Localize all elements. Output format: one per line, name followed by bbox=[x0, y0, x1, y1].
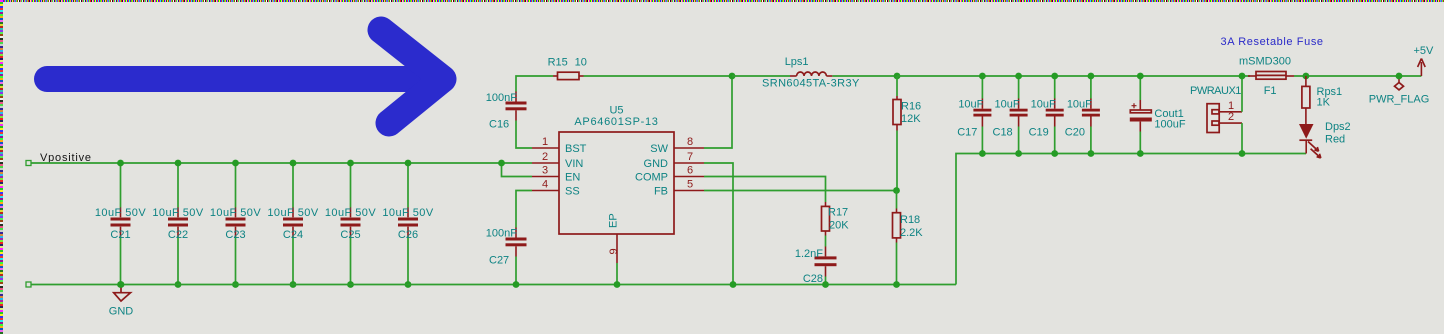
svg-text:FB: FB bbox=[654, 186, 668, 198]
svg-text:R15: R15 bbox=[548, 57, 568, 69]
pin 4 SS bbox=[532, 179, 580, 198]
svg-text:PWRAUX1: PWRAUX1 bbox=[1190, 85, 1241, 97]
svg-text:C24: C24 bbox=[283, 229, 303, 241]
svg-text:4: 4 bbox=[542, 179, 548, 191]
wire R15 right to SW node bbox=[579, 75, 584, 77]
capacitor C25 bbox=[325, 160, 377, 288]
svg-text:GND: GND bbox=[109, 306, 134, 318]
capacitor C23 bbox=[210, 160, 262, 288]
svg-text:8: 8 bbox=[687, 136, 693, 148]
junction SW node bbox=[729, 73, 736, 80]
svg-text:1: 1 bbox=[1228, 100, 1234, 112]
capacitor Cout1 polarized bbox=[1130, 73, 1186, 157]
svg-text:1: 1 bbox=[542, 136, 548, 148]
svg-text:C28: C28 bbox=[803, 273, 823, 285]
resistor R16 bbox=[893, 76, 921, 191]
svg-text:R17: R17 bbox=[828, 207, 848, 219]
svg-text:10uF 50V: 10uF 50V bbox=[267, 207, 319, 219]
capacitor C26 bbox=[382, 160, 434, 288]
capacitor C16 bbox=[486, 92, 527, 131]
svg-text:GND: GND bbox=[644, 158, 669, 170]
svg-text:C16: C16 bbox=[489, 119, 509, 131]
fuse F1 bbox=[1239, 56, 1294, 98]
svg-text:100nF: 100nF bbox=[486, 228, 517, 240]
svg-text:1.2nF: 1.2nF bbox=[795, 248, 823, 260]
svg-text:6: 6 bbox=[687, 165, 693, 177]
junction pin2 ground bbox=[1239, 150, 1246, 157]
svg-text:10uF 50V: 10uF 50V bbox=[95, 207, 147, 219]
svg-text:SW: SW bbox=[650, 143, 668, 155]
svg-text:10uF: 10uF bbox=[958, 98, 983, 110]
capacitor C18 bbox=[993, 73, 1028, 157]
net label Vpositive bbox=[26, 152, 92, 166]
svg-text:7: 7 bbox=[687, 151, 693, 163]
svg-text:100uF: 100uF bbox=[1154, 119, 1185, 131]
capacitor C28 bbox=[795, 248, 837, 288]
svg-text:R16: R16 bbox=[901, 101, 921, 113]
ground GND bbox=[109, 281, 134, 317]
pin 3 EN bbox=[532, 165, 580, 184]
svg-text:U5: U5 bbox=[609, 105, 623, 117]
svg-text:3A Resetable Fuse: 3A Resetable Fuse bbox=[1221, 36, 1324, 48]
svg-text:C27: C27 bbox=[489, 255, 509, 267]
wire PWRAUX pin2 drop bbox=[1241, 123, 1243, 153]
junction Rps1 top bbox=[1303, 73, 1310, 80]
wire top rail right section bbox=[897, 75, 1250, 77]
svg-text:R18: R18 bbox=[900, 214, 920, 226]
LED Dps2 bbox=[1299, 121, 1351, 158]
capacitor C17 bbox=[957, 73, 991, 157]
svg-text:Red: Red bbox=[1325, 133, 1345, 145]
pin 1 BST bbox=[532, 136, 587, 155]
resistor Rps1 bbox=[1302, 76, 1342, 124]
svg-text:SRN6045TA-3R3Y: SRN6045TA-3R3Y bbox=[762, 77, 860, 89]
svg-text:COMP: COMP bbox=[635, 172, 668, 184]
svg-text:SS: SS bbox=[565, 186, 580, 198]
svg-text:10uF 50V: 10uF 50V bbox=[325, 207, 377, 219]
pin 5 FB bbox=[654, 179, 704, 198]
svg-text:10uF 50V: 10uF 50V bbox=[152, 207, 204, 219]
wire FB node bbox=[704, 190, 896, 192]
resistor R15 bbox=[548, 57, 587, 80]
wire fuse to +5V bbox=[1294, 75, 1421, 77]
wire Vpositive rail bbox=[31, 162, 532, 164]
svg-text:VIN: VIN bbox=[565, 158, 583, 170]
svg-text:Lps1: Lps1 bbox=[785, 56, 809, 68]
svg-text:+5V: +5V bbox=[1413, 45, 1434, 57]
svg-text:PWR_FLAG: PWR_FLAG bbox=[1369, 94, 1430, 106]
svg-text:10uF: 10uF bbox=[1031, 98, 1056, 110]
svg-text:12K: 12K bbox=[901, 113, 921, 125]
svg-text:20K: 20K bbox=[829, 219, 849, 231]
wire BST riser and R15 left bbox=[516, 76, 553, 148]
svg-text:C23: C23 bbox=[225, 229, 245, 241]
pin 7 GND bbox=[644, 151, 704, 170]
wire SS to C27 bbox=[516, 191, 532, 228]
capacitor C20 bbox=[1065, 73, 1100, 157]
svg-text:EN: EN bbox=[565, 172, 580, 184]
junction PWRAUX rail bbox=[1239, 73, 1246, 80]
svg-text:C17: C17 bbox=[957, 127, 977, 139]
wire EN drop bbox=[502, 163, 533, 177]
svg-text:AP64601SP-13: AP64601SP-13 bbox=[574, 116, 658, 128]
junction GND rail bbox=[730, 281, 737, 288]
pin 8 SW bbox=[650, 136, 704, 155]
svg-text:100nF: 100nF bbox=[486, 92, 517, 104]
svg-text:10: 10 bbox=[575, 57, 587, 69]
junction VIN node bbox=[498, 160, 505, 167]
svg-text:9: 9 bbox=[608, 248, 620, 254]
svg-text:2.2K: 2.2K bbox=[900, 227, 923, 239]
junction inductor right node bbox=[894, 73, 901, 80]
svg-text:10uF: 10uF bbox=[1067, 98, 1092, 110]
junction EP ground bbox=[614, 281, 621, 288]
wire bottom ground rail bbox=[31, 284, 956, 286]
svg-text:C22: C22 bbox=[168, 229, 188, 241]
svg-text:5: 5 bbox=[687, 179, 693, 191]
svg-text:Dps2: Dps2 bbox=[1325, 121, 1351, 133]
svg-text:F1: F1 bbox=[1264, 85, 1277, 97]
power symbol +5V bbox=[1413, 45, 1434, 76]
wire COMP to R17 bbox=[704, 177, 826, 203]
svg-text:2: 2 bbox=[1228, 111, 1234, 123]
svg-text:10uF: 10uF bbox=[995, 98, 1020, 110]
capacitor C27 bbox=[486, 228, 527, 288]
svg-text:C26: C26 bbox=[398, 229, 418, 241]
svg-text:1K: 1K bbox=[1317, 97, 1331, 109]
svg-text:2: 2 bbox=[542, 151, 548, 163]
svg-text:EP: EP bbox=[608, 213, 620, 228]
graphic arrow bbox=[47, 30, 443, 123]
svg-text:C25: C25 bbox=[340, 229, 360, 241]
pin 9 EP bbox=[608, 213, 621, 263]
capacitor C21 bbox=[95, 160, 147, 288]
svg-text:C21: C21 bbox=[110, 229, 130, 241]
svg-text:3: 3 bbox=[542, 165, 548, 177]
svg-text:10uF 50V: 10uF 50V bbox=[382, 207, 434, 219]
pin 2 VIN bbox=[532, 151, 583, 170]
svg-text:C19: C19 bbox=[1029, 127, 1049, 139]
wire PWRAUX pin1 riser bbox=[1241, 76, 1243, 112]
power flag PWR_FLAG bbox=[1369, 73, 1430, 106]
svg-text:10uF 50V: 10uF 50V bbox=[210, 207, 262, 219]
svg-text:C20: C20 bbox=[1065, 127, 1085, 139]
connector PWRAUX1 bbox=[1190, 85, 1242, 133]
wire GND pin to ground rail bbox=[704, 163, 733, 285]
wire EP to ground rail bbox=[616, 263, 618, 285]
svg-text:C18: C18 bbox=[993, 127, 1013, 139]
wire SW drop bbox=[704, 76, 732, 148]
junction FB node bbox=[893, 187, 900, 194]
capacitor C19 bbox=[1029, 73, 1064, 157]
resistor R18 bbox=[893, 191, 924, 288]
wire SW node to inductor bbox=[732, 75, 790, 77]
inductor Lps1 bbox=[762, 56, 860, 89]
capacitor C24 bbox=[267, 160, 319, 288]
svg-text:mSMD300: mSMD300 bbox=[1239, 56, 1291, 68]
net square bottom left bbox=[26, 282, 31, 287]
svg-text:BST: BST bbox=[565, 143, 587, 155]
pin 6 COMP bbox=[635, 165, 704, 184]
resistor R17 bbox=[822, 206, 850, 256]
wire output ground riser bbox=[956, 154, 1306, 285]
regulator IC U5 AP64601SP-13 bbox=[559, 105, 674, 235]
capacitor C22 bbox=[152, 160, 204, 288]
